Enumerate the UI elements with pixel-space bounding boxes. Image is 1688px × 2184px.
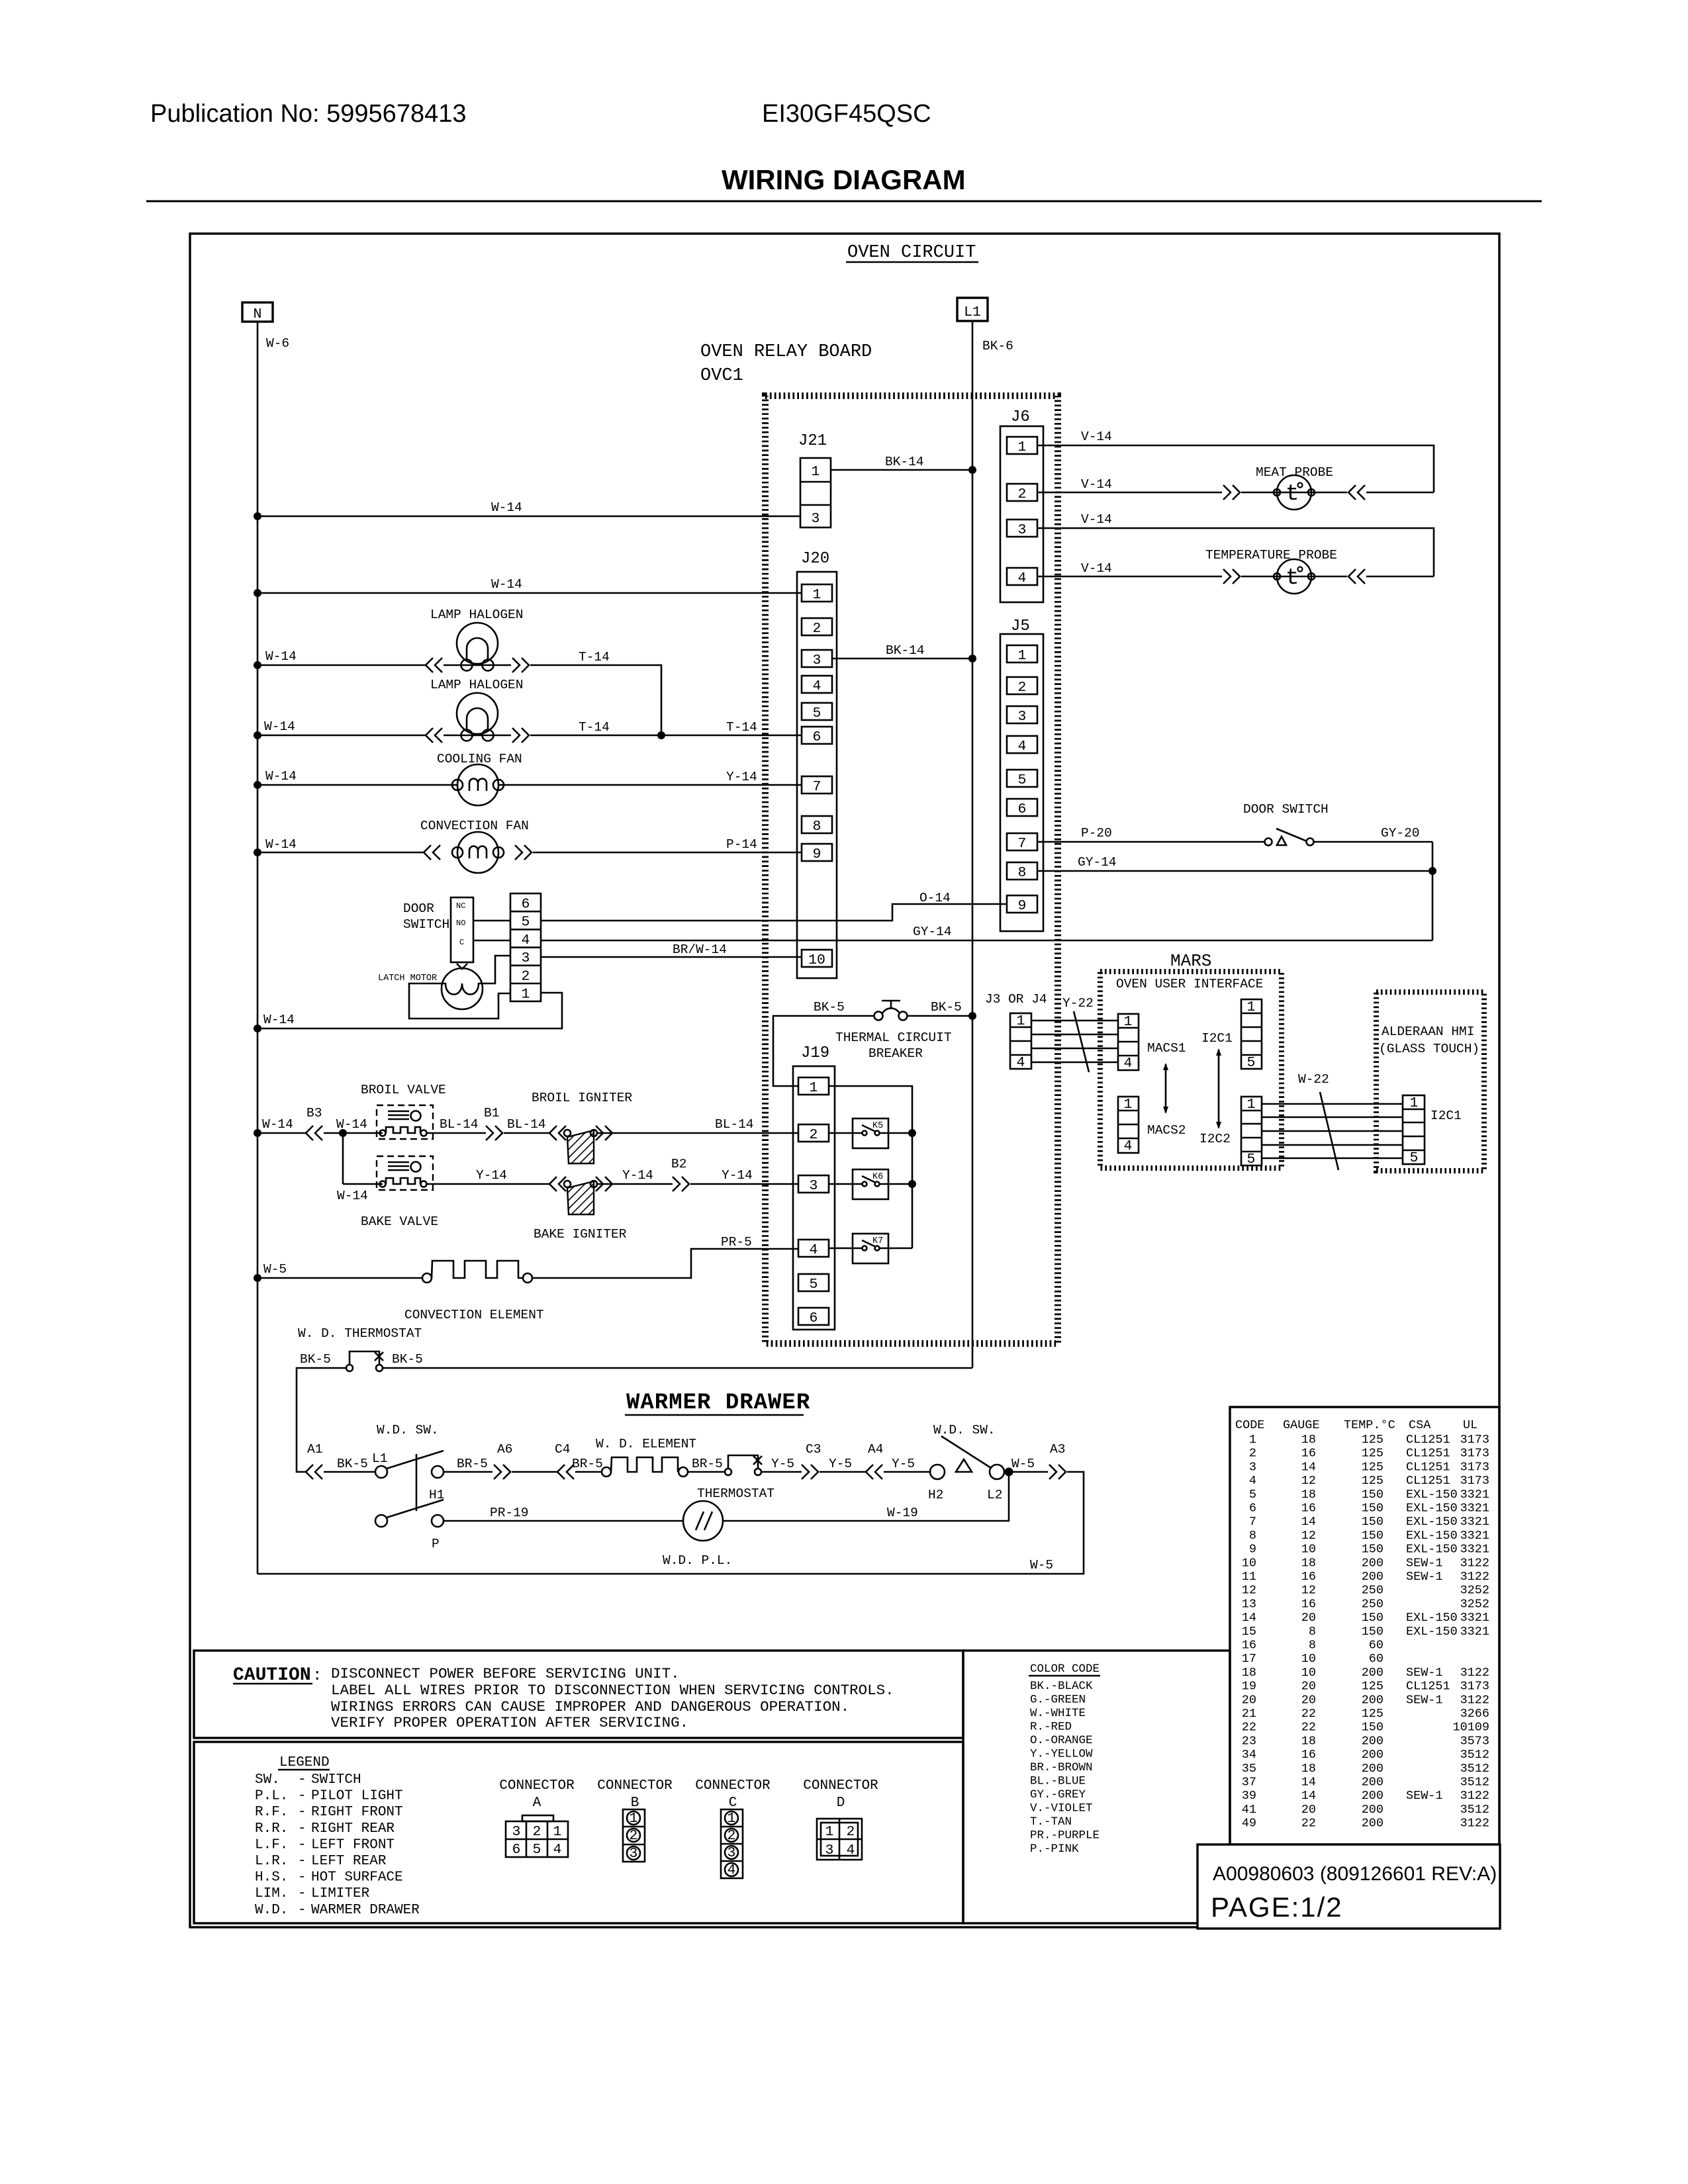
svg-text:LABEL ALL WIRES PRIOR TO DISCO: LABEL ALL WIRES PRIOR TO DISCONNECTION W… — [331, 1682, 894, 1699]
svg-text:CL1251: CL1251 — [1406, 1447, 1450, 1461]
wire PR-19 P to pilot light — [444, 1520, 683, 1522]
svg-text:5: 5 — [1410, 1150, 1419, 1166]
svg-text:23: 23 — [1242, 1734, 1256, 1748]
meat probe sensor — [1274, 475, 1315, 510]
wire lamp2 internal — [444, 735, 511, 737]
connector I2C1 header — [1241, 999, 1262, 1071]
wire BK-5 A1 to L1 contact — [324, 1471, 375, 1473]
svg-text:3122: 3122 — [1460, 1817, 1489, 1831]
svg-text:WIRING DIAGRAM: WIRING DIAGRAM — [722, 164, 966, 195]
svg-text:20: 20 — [1301, 1693, 1316, 1707]
svg-text:G.-GREEN: G.-GREEN — [1030, 1694, 1086, 1707]
wire gauge table rows — [1242, 1433, 1489, 1831]
wire BR-5 element to thermostat — [688, 1471, 725, 1473]
node junction dot J21-1/L1 — [968, 466, 976, 474]
svg-text:3321: 3321 — [1460, 1502, 1489, 1516]
svg-text:3: 3 — [630, 1846, 638, 1862]
node junction dot N/broil — [254, 1129, 261, 1137]
svg-text:2: 2 — [1249, 1447, 1256, 1461]
arrow I2C1-I2C2 — [1216, 1048, 1221, 1129]
svg-text:22: 22 — [1242, 1721, 1256, 1735]
svg-text:VERIFY PROPER OPERATION AFTER: VERIFY PROPER OPERATION AFTER SERVICING. — [331, 1714, 688, 1731]
svg-text:I2C1: I2C1 — [1201, 1031, 1233, 1046]
convection element — [422, 1261, 532, 1283]
svg-text:3173: 3173 — [1460, 1680, 1489, 1694]
page number box — [1197, 1844, 1500, 1929]
svg-text:14: 14 — [1301, 1515, 1316, 1529]
svg-text:I2C1: I2C1 — [1430, 1109, 1462, 1123]
wire BK-5 J19 pin1 to breaker — [773, 1016, 874, 1086]
wire BR-5 H1 to A6 — [444, 1471, 492, 1473]
svg-text:P.L.: P.L. — [255, 1789, 288, 1804]
wire latch motor right to header 3 — [483, 956, 510, 983]
svg-text:1: 1 — [1017, 1013, 1025, 1029]
connector J21 — [800, 458, 831, 527]
svg-text:12: 12 — [1301, 1584, 1316, 1598]
svg-text:5: 5 — [533, 1842, 541, 1858]
svg-text:4: 4 — [1249, 1474, 1256, 1488]
svg-text:20: 20 — [1301, 1680, 1316, 1694]
svg-text:H.S.: H.S. — [255, 1870, 288, 1886]
svg-text:Y-14: Y-14 — [622, 1168, 653, 1183]
node junction dot breaker/L1 — [968, 1012, 976, 1020]
svg-text:3321: 3321 — [1460, 1529, 1489, 1543]
connector MACS2 — [1118, 1097, 1139, 1154]
svg-text:D: D — [837, 1796, 845, 1811]
svg-text:WARMER DRAWER: WARMER DRAWER — [626, 1390, 810, 1416]
svg-text:200: 200 — [1362, 1776, 1383, 1790]
svg-text:19: 19 — [1242, 1680, 1256, 1694]
svg-text:V-14: V-14 — [1081, 430, 1112, 444]
connector A symbol — [506, 1815, 568, 1858]
svg-text:SEW-1: SEW-1 — [1406, 1556, 1443, 1570]
svg-text:12: 12 — [1242, 1584, 1256, 1598]
node junction dot J20-3/L1 — [968, 655, 976, 662]
wire A3 return to N — [258, 1472, 1084, 1574]
svg-text:6: 6 — [1249, 1502, 1256, 1516]
connector chevrons bake igniter left — [549, 1177, 566, 1191]
svg-text:18: 18 — [1301, 1734, 1316, 1748]
wire K7 to riser — [880, 1248, 912, 1250]
svg-text:K5: K5 — [872, 1121, 883, 1131]
wire T-14 lamp1 to junction — [530, 665, 661, 735]
switch blade upper — [387, 1451, 444, 1469]
svg-text:LIMITER: LIMITER — [311, 1886, 370, 1901]
svg-text:10109: 10109 — [1452, 1721, 1489, 1735]
wire V-14 J6 pin2 to probe — [1037, 492, 1222, 494]
wire J21 pin3 W-14 — [258, 516, 800, 518]
wire J21 pin1 BK-14 — [831, 469, 972, 471]
svg-text:CL1251: CL1251 — [1406, 1460, 1450, 1474]
title rule — [146, 201, 1542, 203]
svg-text:1: 1 — [1249, 1433, 1256, 1447]
svg-text:B2: B2 — [671, 1157, 686, 1171]
wire GY riser — [1432, 842, 1434, 940]
temperature probe sensor — [1274, 559, 1315, 594]
svg-text:Y-14: Y-14 — [726, 770, 757, 784]
svg-text:UL: UL — [1463, 1418, 1477, 1432]
lamp halogen 2 — [457, 693, 498, 741]
svg-text:RIGHT REAR: RIGHT REAR — [311, 1821, 395, 1837]
wire W-19 pilot light to L2 — [723, 1472, 1009, 1521]
svg-text:1: 1 — [1410, 1095, 1419, 1111]
connector chevrons broil igniter left — [549, 1126, 566, 1140]
connector chevrons convection fan left — [424, 845, 440, 860]
svg-text:W-14: W-14 — [263, 1013, 295, 1027]
svg-text:V.-VIOLET: V.-VIOLET — [1030, 1802, 1093, 1815]
svg-text:T-14: T-14 — [579, 720, 610, 735]
svg-text:W-5: W-5 — [1011, 1457, 1035, 1471]
svg-text:SWITCH: SWITCH — [403, 917, 449, 932]
svg-text:11: 11 — [1242, 1570, 1256, 1584]
svg-text:A00980603 (809126601 REV:A): A00980603 (809126601 REV:A) — [1213, 1863, 1497, 1885]
svg-text:BK-5: BK-5 — [300, 1352, 331, 1367]
svg-text:NO: NO — [456, 919, 465, 928]
svg-text:BREAKER: BREAKER — [868, 1046, 923, 1061]
svg-text:3: 3 — [512, 1824, 521, 1840]
connector chevrons lamp2 left — [426, 728, 442, 743]
wire V-14 J6 pin3 — [1037, 528, 1434, 576]
svg-text:NC: NC — [456, 901, 465, 911]
svg-text:CODE: CODE — [1235, 1418, 1264, 1432]
svg-text:P-20: P-20 — [1081, 826, 1112, 841]
svg-text:200: 200 — [1362, 1803, 1383, 1817]
svg-text:16: 16 — [1301, 1502, 1316, 1516]
svg-text::: : — [312, 1667, 322, 1685]
svg-text:-: - — [298, 1837, 306, 1852]
svg-text:3: 3 — [813, 653, 821, 668]
svg-text:GY-14: GY-14 — [913, 925, 952, 939]
svg-text:-: - — [298, 1789, 306, 1804]
svg-text:RIGHT FRONT: RIGHT FRONT — [311, 1805, 403, 1820]
ALDERAAN HMI dashed box — [1376, 992, 1484, 1171]
svg-text:6: 6 — [522, 897, 530, 913]
svg-text:BAKE VALVE: BAKE VALVE — [361, 1214, 438, 1229]
svg-text:150: 150 — [1362, 1529, 1383, 1543]
svg-text:200: 200 — [1362, 1693, 1383, 1707]
svg-text:22: 22 — [1301, 1707, 1316, 1721]
svg-text:20: 20 — [1242, 1693, 1256, 1707]
svg-text:J20: J20 — [801, 550, 829, 568]
svg-text:18: 18 — [1242, 1666, 1256, 1680]
svg-text:3: 3 — [522, 950, 530, 966]
svg-text:P: P — [432, 1537, 440, 1551]
svg-text:-: - — [298, 1854, 306, 1869]
svg-text:CL1251: CL1251 — [1406, 1474, 1450, 1488]
svg-text:3: 3 — [727, 1845, 736, 1861]
svg-text:3122: 3122 — [1460, 1666, 1489, 1680]
svg-text:3321: 3321 — [1460, 1488, 1489, 1502]
door switch NC/NO/C contact box — [451, 897, 473, 962]
svg-text:C4: C4 — [555, 1442, 570, 1457]
svg-text:H2: H2 — [928, 1488, 943, 1502]
svg-text:LATCH MOTOR: LATCH MOTOR — [378, 974, 437, 983]
wire J19 pin3 to K6 — [829, 1183, 862, 1185]
svg-text:B: B — [631, 1796, 639, 1811]
connector C symbol — [721, 1809, 743, 1878]
svg-text:CONNECTOR: CONNECTOR — [803, 1778, 878, 1794]
svg-text:BR-5: BR-5 — [572, 1457, 603, 1471]
svg-text:PR.-PURPLE: PR.-PURPLE — [1030, 1829, 1100, 1843]
svg-text:CONNECTOR: CONNECTOR — [695, 1778, 771, 1794]
svg-text:GY-20: GY-20 — [1381, 826, 1420, 841]
svg-text:BK-6: BK-6 — [982, 339, 1013, 353]
wire W-22 slash — [1320, 1092, 1338, 1170]
caution box — [194, 1651, 963, 1738]
svg-text:W. D. ELEMENT: W. D. ELEMENT — [596, 1437, 696, 1451]
convection fan motor — [452, 832, 504, 873]
wire L1/J3 vertical bus — [972, 321, 974, 1368]
svg-text:150: 150 — [1362, 1721, 1383, 1735]
wire K5 to riser — [880, 1132, 912, 1134]
svg-text:3: 3 — [1018, 709, 1027, 725]
wire W-5 L2 to A3 — [1004, 1471, 1048, 1473]
svg-text:4: 4 — [522, 933, 530, 948]
svg-text:200: 200 — [1362, 1748, 1383, 1762]
connector J20 — [797, 572, 837, 978]
svg-text:3573: 3573 — [1460, 1734, 1489, 1748]
wire W-14 to lamp 1 — [258, 664, 426, 666]
svg-text:TEMP.°C: TEMP.°C — [1344, 1418, 1395, 1432]
svg-text:2: 2 — [1018, 486, 1027, 502]
svg-text:BR/W-14: BR/W-14 — [673, 942, 727, 957]
svg-text:W-19: W-19 — [887, 1506, 918, 1520]
node junction dot N/J20-1 — [254, 589, 261, 597]
wire gauge table box — [1230, 1407, 1499, 1844]
svg-text:3: 3 — [810, 1178, 818, 1194]
svg-text:2: 2 — [847, 1824, 855, 1840]
svg-text:125: 125 — [1362, 1680, 1383, 1694]
svg-text:OVEN CIRCUIT: OVEN CIRCUIT — [847, 243, 976, 263]
svg-text:Y-5: Y-5 — [892, 1457, 915, 1471]
svg-text:BK-5: BK-5 — [814, 1000, 845, 1015]
svg-text:BR-5: BR-5 — [692, 1457, 723, 1471]
svg-text:W.D. SW.: W.D. SW. — [933, 1423, 996, 1437]
svg-text:-: - — [298, 1772, 306, 1788]
svg-text:T-14: T-14 — [726, 720, 757, 735]
svg-text:BR.-BROWN: BR.-BROWN — [1030, 1761, 1093, 1774]
svg-text:3: 3 — [812, 511, 820, 527]
svg-text:BL-14: BL-14 — [715, 1117, 754, 1132]
svg-text:BK-14: BK-14 — [885, 455, 924, 469]
connector chevrons meat probe left — [1223, 485, 1240, 500]
svg-text:6: 6 — [512, 1842, 521, 1858]
svg-text:SEW-1: SEW-1 — [1406, 1789, 1443, 1803]
svg-text:5: 5 — [1018, 772, 1027, 788]
svg-text:4: 4 — [727, 1862, 736, 1878]
svg-text:THERMOSTAT: THERMOSTAT — [697, 1486, 774, 1501]
svg-text:CL1251: CL1251 — [1406, 1680, 1450, 1694]
svg-text:5: 5 — [1247, 1152, 1256, 1167]
svg-text:5: 5 — [810, 1277, 818, 1293]
svg-text:EXL-150: EXL-150 — [1406, 1515, 1458, 1529]
svg-text:-: - — [298, 1886, 306, 1901]
svg-text:3321: 3321 — [1460, 1543, 1489, 1557]
svg-text:16: 16 — [1301, 1597, 1316, 1611]
svg-text:1: 1 — [1124, 1014, 1133, 1030]
wire door switch C to header 4 — [473, 940, 510, 942]
svg-text:LEFT FRONT: LEFT FRONT — [311, 1837, 395, 1852]
wire J19 pin2 to K5 — [829, 1132, 862, 1134]
svg-text:1: 1 — [1018, 648, 1027, 664]
relay K5 — [853, 1118, 888, 1148]
wire temp probe return — [1366, 576, 1434, 578]
contact H2 — [930, 1465, 945, 1479]
svg-text:2: 2 — [533, 1824, 541, 1840]
svg-text:K7: K7 — [872, 1236, 883, 1246]
svg-text:CAUTION: CAUTION — [233, 1665, 311, 1686]
svg-text:3: 3 — [1018, 522, 1027, 538]
svg-text:BK-5: BK-5 — [931, 1000, 962, 1015]
svg-text:PR-19: PR-19 — [490, 1506, 529, 1520]
svg-text:BAKE IGNITER: BAKE IGNITER — [534, 1227, 627, 1242]
svg-text:2: 2 — [727, 1828, 736, 1844]
svg-text:20: 20 — [1301, 1611, 1316, 1625]
svg-text:39: 39 — [1242, 1789, 1256, 1803]
svg-text:3173: 3173 — [1460, 1474, 1489, 1488]
svg-text:3: 3 — [825, 1843, 834, 1858]
svg-text:LEFT REAR: LEFT REAR — [311, 1854, 387, 1869]
svg-text:Y-14: Y-14 — [722, 1168, 753, 1183]
wire J20 pin3 BK-14 — [832, 658, 972, 660]
wire GY-20 door switch to riser — [1314, 841, 1432, 843]
svg-text:6: 6 — [813, 729, 821, 745]
svg-text:150: 150 — [1362, 1488, 1383, 1502]
svg-text:P.-PINK: P.-PINK — [1030, 1843, 1079, 1856]
svg-text:5: 5 — [522, 915, 530, 931]
svg-text:BK-14: BK-14 — [886, 643, 925, 658]
svg-text:8: 8 — [1309, 1625, 1316, 1639]
bake igniter — [564, 1181, 597, 1214]
svg-text:5: 5 — [1247, 1055, 1256, 1071]
contact H1 — [432, 1466, 444, 1478]
svg-text:BK-5: BK-5 — [337, 1457, 368, 1471]
svg-text:22: 22 — [1301, 1817, 1316, 1831]
svg-text:18: 18 — [1301, 1433, 1316, 1447]
svg-text:8: 8 — [1249, 1529, 1256, 1543]
svg-text:8: 8 — [813, 819, 821, 835]
svg-text:EXL-150: EXL-150 — [1406, 1488, 1458, 1502]
svg-text:3512: 3512 — [1460, 1776, 1489, 1790]
connector chevrons temp probe right — [1348, 569, 1365, 584]
wire BL-14 B1 to broil igniter — [504, 1132, 551, 1134]
svg-text:1: 1 — [1018, 439, 1027, 455]
wire thermostat to warmer drawer A1 — [297, 1368, 346, 1472]
svg-text:3321: 3321 — [1460, 1611, 1489, 1625]
svg-text:4: 4 — [810, 1242, 818, 1258]
broil igniter — [564, 1130, 597, 1163]
svg-text:Y-5: Y-5 — [771, 1457, 794, 1471]
node junction dot N/J21-3 — [254, 512, 261, 520]
svg-text:BK-5: BK-5 — [392, 1352, 423, 1367]
svg-text:3122: 3122 — [1460, 1789, 1489, 1803]
svg-text:3122: 3122 — [1460, 1570, 1489, 1584]
svg-text:200: 200 — [1362, 1666, 1383, 1680]
svg-text:4: 4 — [1124, 1056, 1133, 1071]
wire Y-5 A4 to H2 — [884, 1471, 930, 1473]
svg-text:BL-14: BL-14 — [507, 1117, 546, 1132]
svg-text:Publication No: 5995678413: Publication No: 5995678413 — [150, 100, 467, 128]
svg-text:16: 16 — [1301, 1447, 1316, 1461]
svg-text:SW.: SW. — [255, 1772, 280, 1788]
svg-text:34: 34 — [1242, 1748, 1256, 1762]
svg-text:N: N — [254, 306, 262, 322]
svg-text:SEW-1: SEW-1 — [1406, 1570, 1443, 1584]
svg-text:W-6: W-6 — [266, 336, 289, 351]
connector HMI I2C1 — [1403, 1095, 1425, 1166]
wire Y-14 bake igniter to B2 — [597, 1183, 673, 1185]
svg-text:9: 9 — [1018, 898, 1027, 914]
wire T-14 lamp2 to J20 pin6 — [530, 735, 802, 737]
svg-text:W-5: W-5 — [1030, 1558, 1053, 1572]
svg-text:WARMER DRAWER: WARMER DRAWER — [311, 1903, 420, 1918]
wire header5 O-14 to J5 pin9 — [541, 904, 1007, 921]
wire BL-14 broil igniter to J19 pin2 — [597, 1132, 798, 1134]
svg-text:2: 2 — [630, 1828, 638, 1844]
svg-text:9: 9 — [1249, 1543, 1256, 1557]
node junction dot N/lamp2 — [254, 731, 261, 739]
svg-text:18: 18 — [1301, 1762, 1316, 1776]
svg-text:W-14: W-14 — [264, 719, 295, 734]
connector J3/J4 — [1010, 1013, 1031, 1071]
svg-text:250: 250 — [1362, 1584, 1383, 1598]
svg-text:7: 7 — [1249, 1515, 1256, 1529]
svg-text:200: 200 — [1362, 1789, 1383, 1803]
svg-text:8: 8 — [1309, 1639, 1316, 1653]
svg-text:GY-14: GY-14 — [1078, 855, 1117, 870]
svg-text:3266: 3266 — [1460, 1707, 1489, 1721]
svg-text:MEAT PROBE: MEAT PROBE — [1256, 465, 1333, 480]
connector chevrons lamp1 right — [512, 658, 529, 672]
svg-text:BK.-BLACK: BK.-BLACK — [1030, 1680, 1093, 1693]
svg-text:150: 150 — [1362, 1625, 1383, 1639]
svg-text:37: 37 — [1242, 1776, 1256, 1790]
wire W-5 from N to element — [258, 1277, 422, 1279]
svg-text:J3 OR J4: J3 OR J4 — [985, 992, 1047, 1007]
svg-text:EXL-150: EXL-150 — [1406, 1611, 1458, 1625]
svg-text:K6: K6 — [872, 1172, 883, 1182]
svg-text:LAMP HALOGEN: LAMP HALOGEN — [430, 678, 523, 692]
svg-text:V-14: V-14 — [1081, 477, 1112, 492]
wire J20 pin1 W-14 — [258, 592, 802, 594]
wire W-14 to lamp 2 — [258, 735, 426, 737]
svg-text:Y.-YELLOW: Y.-YELLOW — [1030, 1748, 1093, 1761]
svg-text:HOT SURFACE: HOT SURFACE — [311, 1870, 403, 1886]
svg-text:LEGEND: LEGEND — [279, 1755, 330, 1770]
svg-text:SEW-1: SEW-1 — [1406, 1693, 1443, 1707]
wire Y-5 thermostat to C3 — [761, 1471, 802, 1473]
svg-text:16: 16 — [1301, 1748, 1316, 1762]
svg-text:1: 1 — [522, 987, 530, 1003]
svg-text:125: 125 — [1362, 1447, 1383, 1461]
svg-text:MARS: MARS — [1170, 951, 1211, 971]
svg-text:BROIL IGNITER: BROIL IGNITER — [532, 1091, 632, 1105]
svg-text:150: 150 — [1362, 1502, 1383, 1516]
wire into meat probe — [1241, 492, 1347, 494]
svg-text:3512: 3512 — [1460, 1748, 1489, 1762]
svg-text:V-14: V-14 — [1081, 561, 1112, 576]
node junction dot K6 — [908, 1180, 916, 1188]
connector chevrons lamp2 right — [512, 728, 529, 743]
lamp halogen 1 — [457, 623, 498, 671]
svg-text:200: 200 — [1362, 1762, 1383, 1776]
svg-text:OVC1: OVC1 — [700, 366, 743, 386]
svg-text:L.F.: L.F. — [255, 1837, 288, 1852]
node junction dot K5 — [908, 1129, 916, 1137]
wire W-22 harness UI to HMI — [1262, 1104, 1403, 1158]
svg-text:W-14: W-14 — [491, 500, 522, 515]
svg-text:2: 2 — [522, 968, 530, 984]
